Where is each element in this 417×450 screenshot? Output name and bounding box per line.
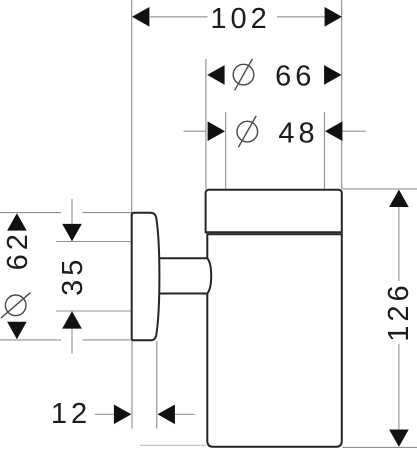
dim 66 label bbox=[275, 61, 315, 93]
wire: dim 35 top extension line bbox=[56, 241, 132, 243]
dim 66 arrow left bbox=[207, 65, 224, 85]
svg-text:12: 12 bbox=[51, 398, 91, 430]
dim 102 label bbox=[210, 3, 270, 35]
wire: dim 126 bottom extension line bbox=[343, 446, 417, 448]
arm bottom line bbox=[158, 293, 207, 295]
wire: dim 62 top extension line (right piece) bbox=[83, 212, 132, 214]
svg-text:48: 48 bbox=[278, 118, 318, 150]
svg-text:62: 62 bbox=[2, 230, 34, 270]
wire: extension line left of dim 48 bbox=[225, 112, 227, 189]
dim 126 arrow down bbox=[389, 430, 409, 447]
dim 35 arrow down (tip on top ext line) bbox=[62, 224, 82, 241]
dim 48 tail line left bbox=[184, 130, 207, 132]
cup rim bbox=[206, 190, 342, 232]
svg-text:35: 35 bbox=[57, 256, 89, 296]
cup body bbox=[207, 234, 341, 446]
dim 102 arrow left bbox=[132, 7, 149, 27]
dim 12 tail line left bbox=[95, 413, 114, 415]
dim 48 tail line right bbox=[342, 130, 366, 132]
dim 48 label bbox=[278, 118, 318, 150]
wire: extension line left of dim 66 bbox=[205, 59, 207, 189]
dim 35 label (rotated) bbox=[57, 256, 89, 296]
dim 62 label (rotated) bbox=[2, 230, 34, 270]
wire: extension line right of dim 102 / rim right bbox=[341, 0, 343, 189]
dim 102 arrow right bbox=[325, 7, 342, 27]
dim 66 diameter symbol bbox=[233, 59, 254, 91]
dim 35 arrow up (tip on bottom ext line) bbox=[62, 311, 82, 328]
dim 12 arrow left (points right) bbox=[114, 405, 131, 425]
dim 102 line left segment bbox=[150, 16, 208, 18]
dim 102 line right segment bbox=[277, 16, 325, 18]
dim 126 line lower segment bbox=[398, 344, 400, 430]
svg-text:126: 126 bbox=[383, 281, 415, 341]
dim 126 line upper segment bbox=[398, 206, 400, 281]
wall plate bbox=[132, 213, 160, 341]
wire: extension line left of dim 102 / plate left bbox=[131, 0, 133, 212]
dim 12 label bbox=[51, 398, 91, 430]
wire: dim 12 left extension line below plate bbox=[131, 341, 133, 429]
dim 12 tail line right bbox=[175, 413, 195, 415]
dim 126 label (rotated) bbox=[383, 281, 415, 341]
wire: dim 62 bottom extension line (left piece) bbox=[0, 339, 61, 341]
dim 62 diameter symbol (rotated) bbox=[1, 293, 30, 318]
dim 62 arrow down bbox=[7, 322, 27, 339]
wire: dim 35 bottom extension line bbox=[56, 310, 132, 312]
arm top line bbox=[158, 257, 207, 259]
wire: extension line right of dim 48 bbox=[323, 112, 325, 189]
dim 35 overshoot line top bbox=[71, 199, 73, 241]
dim 48 arrow left (points right) bbox=[208, 121, 225, 141]
wire: dim 62 top extension line (left piece) bbox=[0, 212, 61, 214]
dim 48 diameter symbol bbox=[237, 116, 258, 148]
dim 62 arrow up bbox=[7, 213, 27, 230]
wire: faint floor line left of cup bottom bbox=[140, 444, 206, 446]
wire: dim 126 top extension line bbox=[343, 188, 417, 190]
wire: dim 62 bottom extension line (right piece) bbox=[83, 339, 132, 341]
dim 126 arrow up bbox=[389, 190, 409, 207]
svg-text:102: 102 bbox=[210, 3, 270, 35]
dim 66 arrow right bbox=[324, 65, 341, 85]
svg-text:66: 66 bbox=[275, 61, 315, 93]
wire: dim 12 right extension line below plate bbox=[156, 341, 158, 429]
dim 48 arrow right (points left) bbox=[325, 121, 342, 141]
dim 35 overshoot line bottom bbox=[71, 312, 73, 354]
dim 12 arrow right (points left) bbox=[158, 405, 175, 425]
